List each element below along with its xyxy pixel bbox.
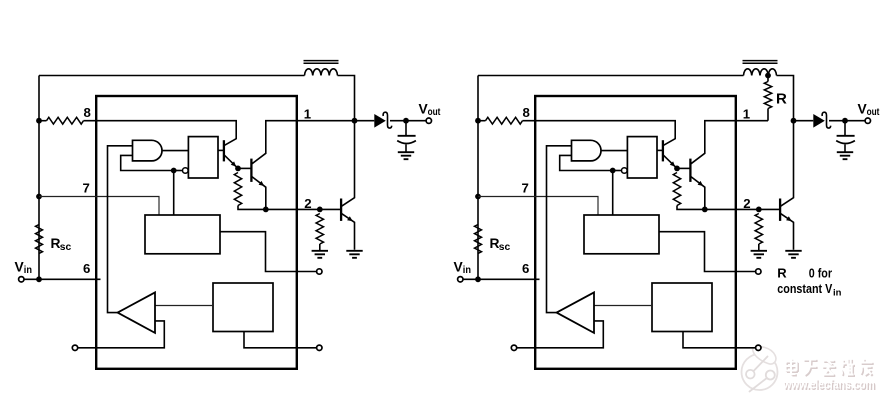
svg-text:www.elecfans.com: www.elecfans.com (782, 378, 874, 392)
svg-text:0 for: 0 for (809, 266, 832, 281)
svg-text:in: in (833, 288, 842, 299)
circuit 2 (right): MC34063 step-up converter with current limit R (454, 61, 880, 369)
svg-text:R: R (776, 90, 787, 107)
watermark text dianzifashaoyou (786, 359, 874, 376)
node inductor tap junction (right circuit) (765, 73, 771, 79)
svg-text:R: R (777, 266, 787, 281)
wire pin 1 to switch node (left circuit) (296, 120, 352, 122)
wire pin 1 to resistor R (right circuit) (735, 120, 768, 122)
circuit 1 (left): MC34063 step-up converter (15, 61, 441, 369)
svg-text:constant V: constant V (777, 282, 833, 296)
resistor R (right circuit) (764, 76, 771, 121)
watermark logo elecfans (742, 347, 778, 392)
